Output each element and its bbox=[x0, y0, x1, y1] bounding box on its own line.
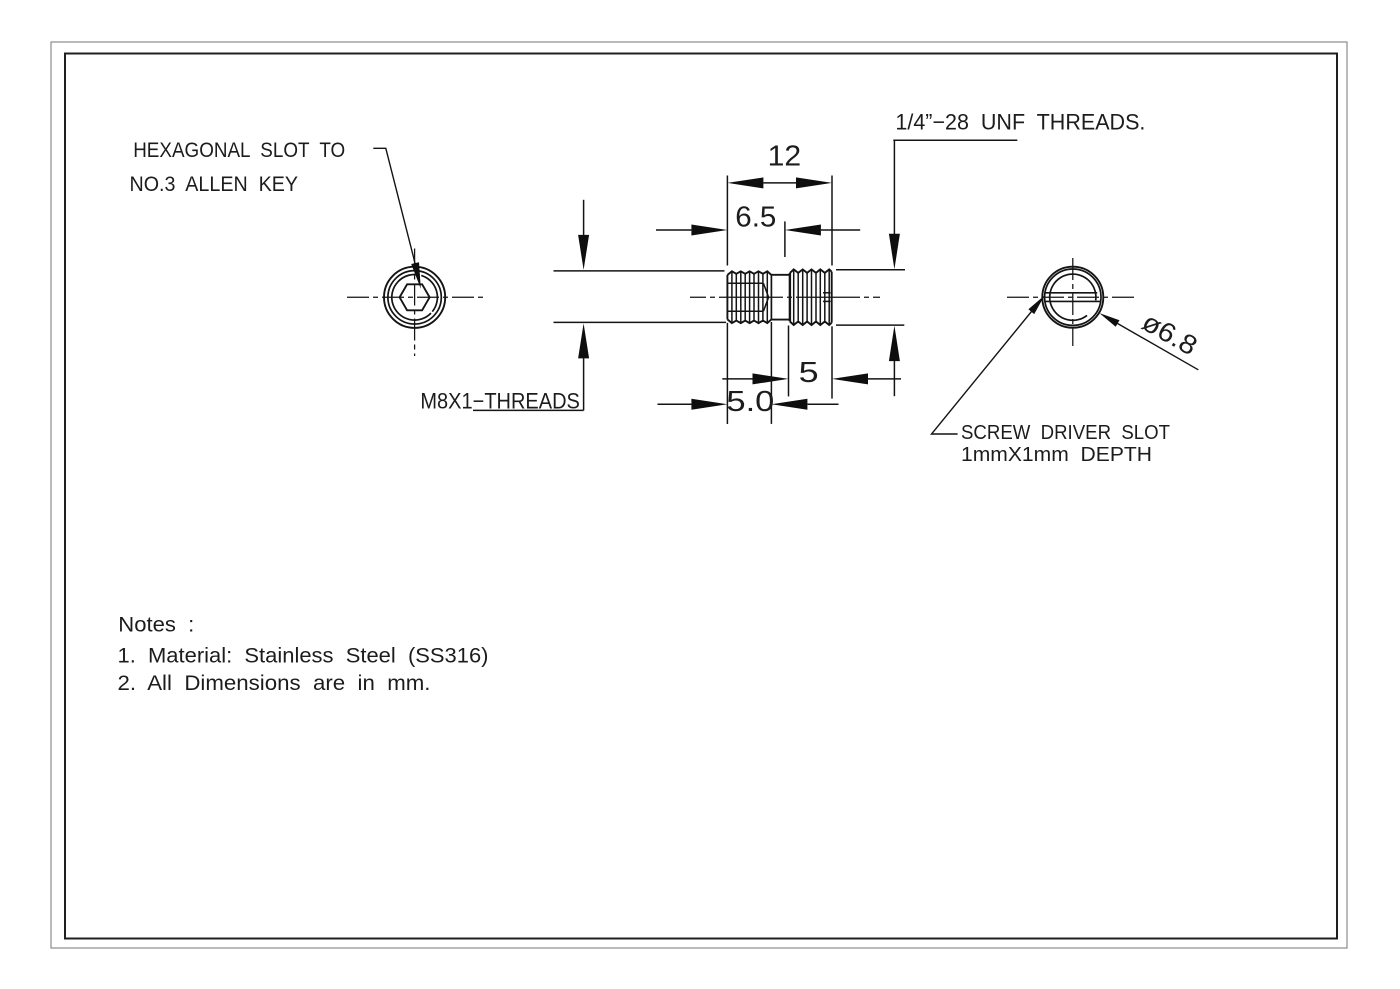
hexagonal socket bbox=[400, 284, 430, 310]
screw driver slot label line 2 bbox=[961, 443, 1152, 466]
extension line below part left bbox=[726, 323, 728, 424]
left diameter extension line top bbox=[554, 270, 725, 272]
dimension 12 arrow left bbox=[727, 177, 763, 188]
middle plain section bottom edge bbox=[771, 319, 790, 321]
dimension 5 arrow left bbox=[753, 373, 789, 384]
dimension 6.5 tail left bbox=[656, 229, 691, 231]
hexagonal slot label line 1 bbox=[133, 139, 345, 162]
UNF threads label text bbox=[895, 110, 1145, 135]
left view thread minor arc bbox=[392, 274, 431, 320]
M8X1 label text bbox=[420, 388, 580, 413]
left diameter dimension line lower bbox=[583, 358, 585, 410]
svg-text:M8X1−THREADS: M8X1−THREADS bbox=[420, 388, 580, 413]
left diameter extension line bottom bbox=[554, 321, 727, 323]
dimension 5 tail right bbox=[868, 378, 901, 380]
extension line below part right bbox=[831, 326, 833, 398]
right view thread minor arc bbox=[1050, 274, 1096, 320]
svg-text:1/4”−28 UNF THREADS.: 1/4”−28 UNF THREADS. bbox=[895, 110, 1145, 135]
notes heading bbox=[118, 613, 194, 637]
note 1 bbox=[118, 643, 489, 667]
M8 thread crest outline top bbox=[727, 271, 771, 275]
right view horizontal centerline bbox=[1007, 296, 1138, 298]
M8 thread crest outline bottom bbox=[727, 319, 771, 323]
M8 section right edge bbox=[770, 275, 772, 319]
left view outer circle bbox=[384, 267, 445, 328]
dimension 5.0 arrow right bbox=[771, 399, 807, 410]
UNF section left shoulder edge bbox=[789, 273, 791, 322]
dimension 5 extension line bbox=[788, 326, 790, 397]
right view vertical centerline bbox=[1072, 258, 1074, 346]
diameter 6.8 value rotated bbox=[1137, 307, 1202, 362]
svg-text:5: 5 bbox=[799, 357, 819, 389]
right diameter dimension line upper bbox=[893, 140, 895, 235]
screwdriver slot hidden in side view top bbox=[823, 292, 831, 294]
dimension 5 tail left bbox=[722, 378, 752, 380]
dimension 5.0 arrow left bbox=[691, 399, 727, 410]
left view vertical centerline bbox=[414, 249, 416, 357]
hexagonal slot label line 2 bbox=[130, 173, 299, 196]
hexagonal slot leader arrowhead bbox=[411, 262, 421, 289]
screwdriver slot line bottom bbox=[1045, 300, 1101, 302]
svg-text:Notes :: Notes : bbox=[118, 613, 194, 637]
dimension 12 value bbox=[768, 140, 802, 172]
svg-text:1. Material: Stainless Stee: 1. Material: Stainless Steel (SS316) bbox=[118, 643, 489, 667]
svg-text:1mmX1mm DEPTH: 1mmX1mm DEPTH bbox=[961, 443, 1152, 466]
note 2 bbox=[118, 671, 431, 695]
svg-text:SCREW DRIVER SLOT: SCREW DRIVER SLOT bbox=[961, 421, 1170, 444]
dimension 6.5 value bbox=[735, 201, 776, 233]
left view thread minor arc segment 2 bbox=[421, 275, 437, 311]
M8X1 label underline bbox=[473, 409, 584, 411]
svg-text:HEXAGONAL SLOT TO: HEXAGONAL SLOT TO bbox=[133, 139, 345, 162]
dimension 6.5 extension line bbox=[784, 221, 786, 257]
screwdriver slot line top bbox=[1045, 292, 1097, 294]
right diameter arrow down bbox=[889, 234, 900, 269]
UNF thread crest outline top bbox=[790, 269, 832, 273]
M8 section left edge bbox=[726, 275, 728, 319]
middle plain section top edge bbox=[771, 274, 790, 276]
dimension 6.5 arrow right bbox=[785, 225, 821, 236]
dimension 5.0 tail right bbox=[807, 403, 838, 405]
dimension 5 arrow right bbox=[832, 373, 868, 384]
UNF label underline bbox=[893, 139, 1017, 141]
svg-text:6.5: 6.5 bbox=[735, 201, 776, 233]
right diameter dimension line lower bbox=[893, 361, 895, 396]
svg-text:NO.3 ALLEN KEY: NO.3 ALLEN KEY bbox=[130, 173, 299, 196]
left view horizontal centerline bbox=[347, 296, 484, 298]
dimension 12 extension line right bbox=[831, 176, 833, 266]
UNF thread crest outline bottom bbox=[790, 322, 832, 326]
dimension 6.5 tail right bbox=[821, 229, 860, 231]
diameter 6.8 leader arrowhead bbox=[1099, 313, 1119, 327]
right diameter extension line top bbox=[836, 269, 905, 271]
screw driver slot leader arrowhead bbox=[1028, 295, 1044, 314]
UNF section right end edge bbox=[831, 272, 833, 323]
M8 thread root line bottom bbox=[727, 310, 763, 312]
dimension 12 line bbox=[763, 182, 796, 184]
screw driver slot label line 1 bbox=[961, 421, 1170, 444]
diameter 6.8 leader line bbox=[1108, 318, 1198, 370]
left diameter dimension line upper bbox=[583, 200, 585, 236]
svg-text:2. All Dimensions are in: 2. All Dimensions are in mm. bbox=[118, 671, 431, 695]
hexagonal slot leader line bbox=[373, 148, 418, 279]
UNF thread flank lines bbox=[794, 270, 830, 324]
M8 thread flank lines bbox=[732, 272, 767, 323]
right diameter extension line bottom bbox=[836, 324, 904, 326]
M8 thread runout cone bbox=[763, 283, 768, 311]
svg-text:5.0: 5.0 bbox=[726, 386, 774, 418]
left view chamfer circle bbox=[388, 271, 441, 324]
dimension 12 arrow right bbox=[796, 177, 832, 188]
svg-text:12: 12 bbox=[768, 140, 802, 172]
left diameter arrow up bbox=[578, 323, 589, 358]
screw driver slot leader line bbox=[932, 304, 1039, 435]
right view outer circle bbox=[1042, 267, 1103, 328]
side view centerline bbox=[690, 296, 880, 298]
dimension 6.5 arrow left bbox=[691, 225, 727, 236]
dimension 5.0 tail left bbox=[658, 403, 692, 405]
right diameter arrow up bbox=[889, 326, 900, 362]
dimension 5.0 value bbox=[726, 386, 774, 418]
right view chamfer circle bbox=[1045, 269, 1101, 325]
dimension 5.0 extension line right bbox=[770, 322, 772, 424]
dimension 12 extension line left bbox=[726, 176, 728, 266]
M8 thread root line top bbox=[727, 282, 763, 284]
screwdriver slot hidden in side view bottom bbox=[823, 300, 831, 302]
left diameter arrow down bbox=[578, 235, 589, 270]
dimension 5 value bbox=[799, 357, 819, 389]
